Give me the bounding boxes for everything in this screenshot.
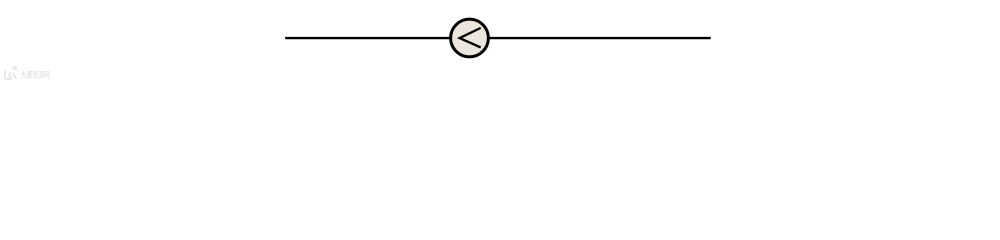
wire [285,37,451,39]
wire [488,37,711,39]
watermark logo [5,70,17,79]
less-than symbol [460,28,481,48]
svg-text:大查资源网: 大查资源网 [21,70,51,80]
node circle (comparison symbol holder) [451,19,489,57]
watermark logo superscript [13,67,18,71]
